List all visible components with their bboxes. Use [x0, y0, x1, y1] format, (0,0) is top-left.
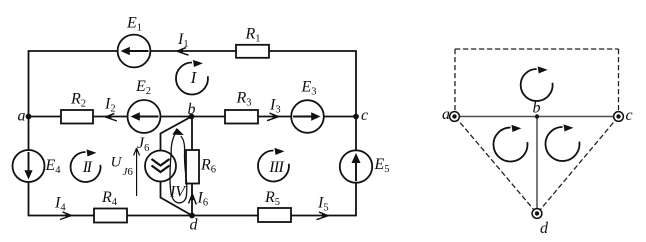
- voltage source E4: [13, 150, 62, 182]
- resistor R6: [186, 150, 216, 184]
- current arrow I5: [317, 195, 329, 220]
- resistor R2: [61, 91, 93, 124]
- svg-text:R4: R4: [101, 189, 118, 208]
- node c: [353, 107, 368, 124]
- svg-text:d: d: [190, 217, 199, 234]
- graph tree branch b-d: [536, 117, 538, 214]
- node b: [188, 101, 196, 119]
- graph dashed link top chord: [455, 48, 619, 50]
- resistor R1: [236, 26, 269, 58]
- svg-text:d: d: [540, 220, 549, 237]
- svg-text:E3: E3: [301, 79, 317, 98]
- svg-text:U: U: [111, 155, 123, 171]
- voltage source E1: [118, 15, 151, 68]
- graph dashed link c-top-corner: [618, 49, 620, 117]
- svg-text:I4: I4: [54, 195, 66, 214]
- graph node c: [614, 107, 633, 124]
- mesh loop I: [176, 60, 208, 95]
- voltage source E2: [128, 78, 161, 133]
- resistor R5: [258, 189, 291, 222]
- voltage source E5: [340, 150, 390, 182]
- current arrow I2: [104, 96, 117, 122]
- svg-text:R5: R5: [264, 189, 280, 208]
- svg-text:a: a: [442, 106, 450, 123]
- voltage source E3: [291, 79, 324, 133]
- wire top branch a-corner to c-corner: [29, 50, 357, 52]
- svg-text:I6: I6: [197, 190, 209, 209]
- current arrow I3: [267, 97, 281, 121]
- graph node b: [533, 100, 541, 119]
- current arrow I6: [189, 190, 209, 209]
- svg-text:III: III: [268, 159, 284, 176]
- graph loop top: [521, 66, 553, 101]
- svg-text:II: II: [82, 159, 93, 176]
- current arrow I4: [54, 195, 72, 220]
- mesh loop III: [258, 148, 289, 182]
- wire J6 branch b to d: [161, 117, 193, 216]
- graph node d: [532, 209, 549, 237]
- svg-text:c: c: [626, 107, 633, 124]
- svg-text:J6: J6: [123, 166, 134, 178]
- svg-text:a: a: [18, 108, 26, 125]
- current source J6: [137, 135, 176, 182]
- graph loop left: [493, 125, 527, 162]
- svg-text:E5: E5: [374, 156, 390, 175]
- wire R6 branch b to d: [191, 117, 193, 216]
- svg-text:R3: R3: [236, 90, 252, 109]
- node d: [189, 213, 198, 234]
- graph dashed link c-d: [537, 117, 619, 214]
- mesh loop IV: [169, 128, 187, 203]
- svg-text:R2: R2: [70, 91, 86, 110]
- svg-text:R6: R6: [200, 157, 216, 176]
- svg-text:b: b: [188, 101, 196, 118]
- graph node a: [442, 106, 459, 123]
- svg-text:E1: E1: [126, 15, 142, 34]
- wire right branch (c column): [355, 51, 357, 216]
- svg-text:J6: J6: [137, 135, 149, 154]
- svg-text:IV: IV: [169, 184, 187, 201]
- svg-text:R1: R1: [245, 26, 261, 45]
- node a: [18, 108, 32, 125]
- voltage arrow U_J6: [111, 148, 140, 196]
- wire left branch (a to top and bottom corners): [28, 51, 30, 216]
- resistor R4: [94, 189, 127, 223]
- svg-text:I1: I1: [177, 31, 189, 50]
- graph tree branch a-c: [455, 116, 619, 118]
- graph dashed link a-top-corner: [454, 49, 456, 117]
- svg-text:b: b: [533, 100, 541, 117]
- mesh loop II: [71, 149, 101, 182]
- svg-text:I2: I2: [104, 96, 116, 115]
- graph dashed link a-d: [455, 117, 537, 214]
- current arrow I1: [177, 31, 189, 55]
- svg-text:E2: E2: [135, 78, 151, 97]
- svg-text:E4: E4: [45, 157, 62, 176]
- svg-text:c: c: [361, 107, 368, 124]
- wire bottom branch: [29, 215, 357, 217]
- wire middle branch a-b-c: [29, 116, 357, 118]
- resistor R3: [225, 90, 258, 124]
- svg-text:I: I: [190, 68, 198, 87]
- graph loop right: [545, 124, 579, 161]
- svg-text:I5: I5: [317, 195, 329, 214]
- svg-text:I3: I3: [269, 97, 281, 116]
